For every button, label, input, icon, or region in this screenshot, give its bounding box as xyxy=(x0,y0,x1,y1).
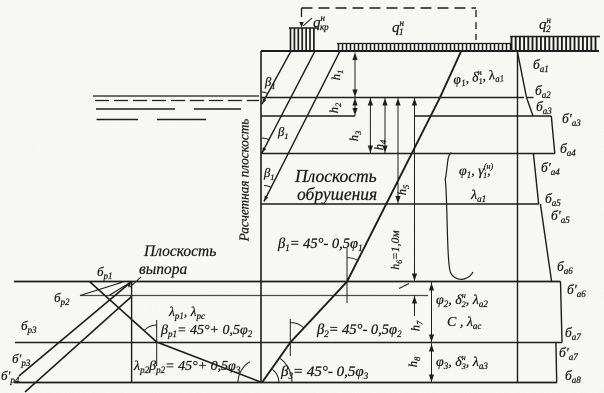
heave plane (Ploskost vypora) polyline xyxy=(90,282,263,383)
svg-text:λр2 βр2 = 45°+ 0,5φ3: λр2 βр2 = 45°+ 0,5φ3 xyxy=(133,359,241,375)
label sigma-a6 xyxy=(557,259,573,276)
paper noise background xyxy=(0,0,1,1)
bottom line xyxy=(14,382,557,384)
heave text line1 xyxy=(143,243,216,260)
label sigma-a2 xyxy=(535,83,551,100)
dimension line h5 xyxy=(395,98,400,205)
label h5 xyxy=(395,185,411,196)
dimension line h3 xyxy=(368,98,373,154)
label h7 xyxy=(409,320,425,331)
dimension line h4 xyxy=(382,98,387,154)
dredge / layer line sigma-a6 level xyxy=(14,281,561,283)
label sigma-a5 prime xyxy=(551,208,570,225)
label lambda-p1 lambda-pc xyxy=(168,304,205,321)
layer line sigma-a3 level xyxy=(261,115,551,117)
label beta-p1 = 45+0.5phi2 xyxy=(160,323,253,339)
curly brace layer 1 xyxy=(445,153,473,280)
beta2 breakpoint tick and arc xyxy=(290,319,304,356)
active pressure diagram stepped right edge xyxy=(518,52,563,383)
label sigma-p3 prime xyxy=(12,351,31,368)
berm slope line 2 xyxy=(109,282,132,296)
label sigma-a8 xyxy=(565,368,581,385)
passive hypotenuse B xyxy=(25,297,132,393)
label sigma-p1 xyxy=(97,264,113,281)
label lambda-p2 beta-p2 xyxy=(133,359,241,375)
label sigma-p4 xyxy=(1,368,20,385)
water surface lines xyxy=(93,96,259,120)
heave label leader xyxy=(127,277,141,288)
svg-text:Плоскость: Плоскость xyxy=(294,166,377,186)
label c lambda-ac xyxy=(447,315,481,331)
svg-text:Плоскость: Плоскость xyxy=(143,243,216,260)
design plane vertical (raschetnaya ploskost) xyxy=(260,51,262,383)
dashed influence box xyxy=(302,8,477,40)
crane load q_kr hatched block xyxy=(289,28,318,51)
layer line sigma-a4 level xyxy=(261,153,555,155)
label lambda-a1 (mid) xyxy=(470,188,486,204)
svg-text:выпора: выпора xyxy=(139,261,187,278)
label q_2^n xyxy=(539,15,552,34)
svg-text:φ1 , γ(н)1 ,: φ1 , γ(н)1 , xyxy=(459,162,493,180)
label h1 xyxy=(329,70,345,81)
passive hypotenuse A xyxy=(19,282,132,377)
design dredge light line xyxy=(80,295,428,297)
label sigma-a1 xyxy=(533,57,549,74)
heave text line2 xyxy=(139,261,187,278)
label beta1 (middle) xyxy=(277,125,288,141)
surcharge strip q1 hatched xyxy=(337,44,512,52)
label q_kr^n with leader arrow xyxy=(299,13,329,32)
label beta1 = 45-0.5phi1 xyxy=(277,236,363,253)
label beta2 = 45-0.5phi2 xyxy=(316,322,402,339)
layer line sigma-a5 level xyxy=(261,203,539,205)
beta-p1 tick and arc xyxy=(144,320,157,366)
slip line D1 with arrow xyxy=(260,51,291,105)
label h8 xyxy=(406,356,422,367)
layer line sigma-a7 level xyxy=(15,342,562,344)
label sigma-a4 prime xyxy=(541,160,560,177)
failure plane (Ploskost obrusheniya) polyline xyxy=(262,52,461,383)
failure plane text line2 xyxy=(297,184,377,204)
label phi3 delta3 lambda-a3 xyxy=(436,353,488,371)
surcharge block q2 hatched xyxy=(510,37,600,52)
label beta1 (lower) xyxy=(263,166,274,182)
label beta3 = 45-0.5phi3 xyxy=(280,364,369,381)
slip line D2 with arrow xyxy=(260,51,315,154)
pressure ordinate vertical xyxy=(517,51,519,383)
label sigma-a5 xyxy=(545,191,561,208)
svg-text:qн2: qн2 xyxy=(539,15,552,34)
dimension line h8 xyxy=(429,344,434,383)
svg-text:β1 = 45°- 0,5φ1: β1 = 45°- 0,5φ1 xyxy=(277,236,363,253)
soil surface line xyxy=(261,50,599,52)
label beta1 (top) xyxy=(264,75,275,91)
label phi1 gamma1 (mid) xyxy=(459,162,493,180)
slip line D3 with arrow xyxy=(262,51,340,202)
beta1 breakpoint tick and arc xyxy=(347,248,357,303)
dimension h6 small with outside arrows xyxy=(399,98,417,317)
dimension line h1/h2 xyxy=(352,53,357,117)
label sigma-a3 xyxy=(536,99,552,116)
label phi1 delta1 lambda-a1 (upper) xyxy=(452,65,504,89)
failure plane text line1 xyxy=(294,166,377,186)
passive ordinate vertical xyxy=(131,282,133,383)
label sigma-a6 prime xyxy=(567,282,586,299)
label sigma-a3 prime xyxy=(562,111,581,128)
label phi2 delta2 lambda-a2 xyxy=(436,291,488,309)
dimension line h7 xyxy=(429,283,434,343)
label sigma-a4 xyxy=(560,141,576,158)
label h3 xyxy=(347,131,363,142)
label sigma-p3 xyxy=(21,318,37,335)
water/layer-1 line behind wall xyxy=(261,97,534,99)
label h6=1.0m xyxy=(390,230,404,270)
svg-text:Расчетная плоскость: Расчетная плоскость xyxy=(237,119,252,242)
label sigma-p2 xyxy=(54,290,70,307)
label sigma-a7 xyxy=(565,325,581,342)
label q_1^n xyxy=(392,18,405,37)
label h2 xyxy=(327,102,343,113)
svg-text:обрушения: обрушения xyxy=(297,184,377,204)
svg-text:qн1: qн1 xyxy=(392,18,405,37)
berm slope line 1 xyxy=(80,282,125,296)
label sigma-a7 prime xyxy=(559,345,578,362)
svg-text:β3 = 45°- 0,5φ3: β3 = 45°- 0,5φ3 xyxy=(280,364,369,381)
rotated label Raschetnaya ploskost xyxy=(237,119,252,242)
svg-text:β2 = 45°- 0,5φ2: β2 = 45°- 0,5φ2 xyxy=(316,322,402,339)
label h4 xyxy=(372,139,388,150)
bottom corner angle arcs xyxy=(238,358,292,383)
